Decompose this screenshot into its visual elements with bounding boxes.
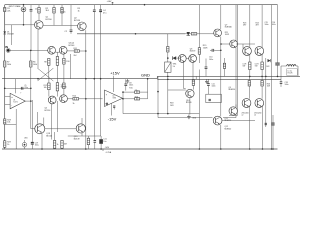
capacitor C21 elec <box>99 136 103 150</box>
label C19 <box>35 143 39 147</box>
svg-text:+56V: +56V <box>107 1 113 3</box>
wire: column x30.8 <box>31 79 36 129</box>
wire: U2 -15 stub <box>111 104 113 116</box>
svg-text:10u: 10u <box>103 141 106 143</box>
resistor R31 <box>61 140 63 148</box>
capacitor C18 <box>280 82 283 87</box>
wire: Q18 down <box>68 133 101 136</box>
transistor QB <box>230 40 238 48</box>
wire: Q6 down <box>56 101 58 132</box>
capacitor C11 <box>207 79 210 94</box>
svg-text:0.25A: 0.25A <box>106 151 112 154</box>
resistor R30 <box>53 132 58 148</box>
label Q13 <box>243 23 246 27</box>
diode D3 <box>187 32 191 36</box>
resistor R21b <box>191 33 197 35</box>
capacitor C1 <box>30 5 33 51</box>
svg-text:220p: 220p <box>24 87 28 89</box>
wire: mid GND bus left section <box>2 78 157 80</box>
capacitor C8 <box>124 79 127 90</box>
label VR1 <box>173 64 177 68</box>
wire: R20 down <box>192 85 194 89</box>
label QB <box>229 87 236 91</box>
capacitor C12 <box>209 99 211 100</box>
wire: R12 to Q5 <box>49 90 58 97</box>
label R2 value <box>9 5 50 12</box>
resistor R13 <box>56 83 58 91</box>
svg-text:1k: 1k <box>57 144 59 146</box>
wire: Q17 top <box>43 118 45 126</box>
capacitor C17 <box>275 5 279 78</box>
label L1 <box>287 69 297 76</box>
wire: R19 down <box>199 54 201 150</box>
svg-text:BC556: BC556 <box>46 19 53 21</box>
wire: between drivers <box>186 58 189 60</box>
resistor REb1 <box>248 76 250 98</box>
diode D4 output <box>266 59 270 68</box>
wire: Q14 emitter <box>261 55 263 63</box>
wire: U2 output <box>122 92 125 114</box>
svg-text:R14: R14 <box>73 96 76 98</box>
svg-text:5k: 5k <box>173 66 175 68</box>
label caps <box>265 22 276 26</box>
capacitor C3 <box>93 5 96 136</box>
resistor R11 base <box>74 48 80 57</box>
wire: driver bases <box>178 57 180 59</box>
label C11 <box>212 83 216 87</box>
ground symbol right mid <box>205 79 209 83</box>
wire: column x281 zobel <box>280 76 282 81</box>
capacitor C4 electrolytic <box>99 5 102 136</box>
input terminal IN <box>5 45 10 52</box>
resistor R14 horizontal <box>73 96 79 105</box>
wire: QB emitter down <box>223 48 236 118</box>
svg-text:R8: R8 <box>44 62 46 64</box>
svg-text:IN: IN <box>5 45 8 49</box>
resistor R19 <box>198 45 208 54</box>
label R25 <box>267 84 271 88</box>
wire: column x167.8 lower <box>167 72 169 113</box>
label Q2 <box>74 18 81 22</box>
diode D2 <box>172 56 180 60</box>
transistor Q17 <box>35 124 45 134</box>
svg-text:x2: x2 <box>242 115 244 117</box>
wire: QB base <box>220 43 230 45</box>
wire: R11 to node <box>79 50 86 52</box>
svg-text:10R: 10R <box>266 66 270 68</box>
label Q4 <box>69 43 75 47</box>
label GND <box>141 73 150 78</box>
label C5 <box>24 85 28 89</box>
svg-text:BC556: BC556 <box>45 110 51 112</box>
wire: QA emitter <box>220 37 222 117</box>
wire: column x271.5 <box>271 5 273 150</box>
transistor Q3 <box>48 46 56 54</box>
transistor QD1 driver <box>178 55 186 63</box>
wire: column x237.4 <box>229 5 237 116</box>
transistor Q1 <box>35 21 44 30</box>
label QD2 <box>190 49 196 53</box>
capacitor C20 <box>94 136 97 149</box>
svg-text:GND: GND <box>141 73 150 78</box>
wire: Q15 emitter down <box>249 107 251 150</box>
transistor QC <box>229 107 237 115</box>
transistor Q18 <box>76 124 85 133</box>
wire: Q2 leg down <box>85 30 87 50</box>
svg-text:100u: 100u <box>272 24 276 26</box>
transistor QD2 driver <box>189 55 197 63</box>
resistor RE2 <box>261 62 263 77</box>
label LD1 <box>24 138 28 140</box>
wire: LED wires <box>24 140 26 149</box>
label C18 <box>285 82 289 86</box>
wire: R2 to Q1 <box>38 13 40 20</box>
resistor R3 <box>53 5 55 26</box>
wire: upper bases line <box>236 44 255 49</box>
power flag -56V <box>103 147 112 154</box>
svg-text:4R7: 4R7 <box>243 25 246 27</box>
transistor Q16 <box>255 99 264 108</box>
svg-text:BC556: BC556 <box>74 20 81 22</box>
capacitor C10 <box>210 49 222 52</box>
wire: diff emitters <box>55 52 59 62</box>
svg-text:10k: 10k <box>7 122 10 124</box>
label Q18 <box>74 136 80 140</box>
svg-text:R15: R15 <box>129 88 132 90</box>
wire: QV base <box>168 89 186 91</box>
svg-text:100n: 100n <box>285 84 289 86</box>
svg-text:5W: 5W <box>243 66 246 68</box>
svg-text:100R: 100R <box>203 47 208 49</box>
power flag +56V <box>107 1 114 4</box>
svg-text:BC546: BC546 <box>61 87 67 89</box>
svg-text:5W: 5W <box>255 66 258 68</box>
wire: Q14 collector <box>261 5 263 48</box>
svg-text:LED: LED <box>24 138 28 140</box>
wire: Q17 stub <box>36 112 38 124</box>
wire: column x167.8 upper <box>167 34 169 47</box>
svg-text:INPUT STAGE: INPUT STAGE <box>9 5 22 8</box>
wire: R15 wires <box>122 91 147 93</box>
wire: U1 output <box>25 100 31 102</box>
wire: left sub loop <box>5 25 12 45</box>
resistor R6 <box>30 50 32 78</box>
current source CS1 <box>21 4 26 12</box>
label R10 <box>66 61 69 63</box>
resistor R12 <box>44 83 51 90</box>
resistor R20 <box>192 80 194 85</box>
resistor R15 fb <box>129 88 139 94</box>
wire: left vertical rail <box>4 5 6 149</box>
svg-text:100n: 100n <box>265 24 269 26</box>
transistor QV vas <box>186 89 194 97</box>
diode D1 on left rail <box>3 29 6 37</box>
capacitor C19 elec <box>31 100 34 149</box>
resistor R13b <box>63 83 65 95</box>
svg-text:100n: 100n <box>129 85 133 87</box>
label R18 <box>170 103 174 107</box>
wire: Q17 down <box>41 134 43 150</box>
transistor Q4 <box>59 46 67 54</box>
wire: Q1 to Q2 <box>43 25 78 27</box>
capacitor C7 <box>113 106 115 110</box>
svg-text:100u: 100u <box>35 145 39 147</box>
svg-text:BC546: BC546 <box>69 45 75 47</box>
op-amp U2 <box>105 90 123 107</box>
label R31 <box>64 144 68 146</box>
wire: drivers emitters <box>184 62 194 88</box>
wire: QB collector up <box>235 5 237 41</box>
wire: QC legs <box>235 105 237 108</box>
wire: CS1 top <box>23 5 25 7</box>
ground symbol lower left <box>187 115 197 120</box>
wire: U1 inputs <box>5 97 10 105</box>
wire: Q16 emitter down <box>262 107 264 150</box>
svg-text:1N4148: 1N4148 <box>7 34 14 36</box>
wire: R1 lower <box>4 12 6 25</box>
wire: Q13 collector <box>249 5 251 48</box>
svg-text:10R: 10R <box>267 86 271 88</box>
svg-text:C1: C1 <box>35 9 37 11</box>
resistor R1 on left rail <box>4 8 11 13</box>
svg-text:U2: U2 <box>113 95 115 97</box>
LED LD1 <box>22 142 27 147</box>
label D1 <box>7 31 14 35</box>
wire: column x147.6 <box>147 78 149 99</box>
wire: top +56V rail <box>5 4 278 6</box>
wire: cross couple A <box>38 68 54 81</box>
svg-text:4R7: 4R7 <box>256 25 259 27</box>
wire: R17 to node <box>167 52 169 62</box>
svg-text:x2: x2 <box>254 115 256 117</box>
svg-text:1k: 1k <box>78 10 80 12</box>
capacitor C13 <box>265 123 267 125</box>
wire: column x265.8 <box>265 58 267 127</box>
wire: column x199.4 <box>198 5 200 48</box>
svg-text:MJE340: MJE340 <box>225 128 232 130</box>
svg-text:-56V: -56V <box>105 147 110 149</box>
label C21 <box>103 139 106 143</box>
op-amp U1 <box>10 93 25 109</box>
label QV <box>186 100 192 104</box>
wire: base feed y24.8 <box>12 24 35 26</box>
svg-text:C5: C5 <box>24 85 26 87</box>
transistor Q13 <box>243 47 252 56</box>
wire: Q1 emitter down <box>37 29 39 68</box>
resistor R2 <box>38 5 40 13</box>
label Q15 <box>242 113 249 117</box>
svg-text:MJE340: MJE340 <box>225 27 232 29</box>
label C10 <box>209 57 213 61</box>
svg-text:R 10R: R 10R <box>288 72 294 74</box>
resistor R9 <box>56 57 58 79</box>
wire: output line y113.6 <box>123 113 199 115</box>
resistor R21 <box>223 58 225 76</box>
wire: R11 left <box>67 50 74 52</box>
capacitor C2 <box>70 30 73 34</box>
wire: U1 feedback line <box>4 88 32 90</box>
inductor L1 <box>281 65 298 77</box>
svg-text:BD139: BD139 <box>190 51 196 53</box>
svg-text:-: - <box>11 103 12 107</box>
label C4 <box>103 10 106 14</box>
svg-text:3k3: 3k3 <box>46 10 50 12</box>
svg-text:100n: 100n <box>61 11 65 13</box>
label +15V <box>110 71 120 76</box>
wire: U2 +15 stub <box>112 76 114 92</box>
svg-text:BD139: BD139 <box>186 102 192 104</box>
resistor RE1 <box>249 62 251 77</box>
wire: Q18 base link <box>45 128 76 130</box>
transistor Q5 <box>48 96 56 104</box>
svg-text:1k: 1k <box>73 103 75 105</box>
svg-text:MJE350: MJE350 <box>229 89 236 91</box>
wire: R14 to U2 <box>79 98 103 100</box>
wire: R12 top <box>49 79 64 83</box>
transistor QD lower predriver <box>213 116 222 125</box>
transistor Q2 <box>78 22 87 31</box>
svg-text:2k2: 2k2 <box>74 55 77 57</box>
capacitor C9 elec <box>205 59 208 77</box>
resistor R28 left rail <box>4 119 11 124</box>
label C2 <box>65 31 68 33</box>
resistor REb2 <box>261 76 263 98</box>
svg-text:R10: R10 <box>66 61 69 63</box>
capacitor C6 <box>105 103 108 105</box>
ground symbol mid <box>126 79 130 83</box>
svg-text:1k: 1k <box>7 144 9 146</box>
svg-text:100n: 100n <box>212 86 216 88</box>
svg-text:U1: U1 <box>13 100 15 102</box>
label Q14 <box>256 23 259 27</box>
label -15V <box>108 116 117 121</box>
wire: line y117.6 to lower predriver <box>158 117 213 119</box>
label OUT <box>0 0 1 1</box>
wire: bias line <box>77 33 185 35</box>
wire: QD emitter down <box>220 125 222 150</box>
svg-text:100k: 100k <box>7 64 11 66</box>
resistor R33 <box>87 136 89 149</box>
label RE1 <box>243 64 247 68</box>
transistor Q14 <box>255 47 264 56</box>
label QD <box>225 118 232 122</box>
wire: Q18 top <box>81 118 83 124</box>
resistor R29 <box>4 141 11 148</box>
resistor R16 fb <box>135 97 140 100</box>
svg-text:R11: R11 <box>74 48 77 50</box>
label Q6 <box>61 84 67 88</box>
capacitor C14 elec <box>271 115 274 150</box>
svg-text:7: 7 <box>20 93 21 95</box>
node: bias line junction <box>135 33 137 35</box>
label Q16 <box>254 113 261 117</box>
trimpot VR1 <box>165 62 171 72</box>
svg-text:100k: 100k <box>33 64 37 66</box>
wire: L route <box>5 109 17 149</box>
wire: main column x85.8 <box>85 51 87 150</box>
svg-text:100R: 100R <box>225 34 230 36</box>
label R8 <box>44 62 46 64</box>
label Q5 <box>45 108 51 112</box>
svg-text:TL071: TL071 <box>13 102 18 104</box>
svg-text:R16: R16 <box>135 97 138 99</box>
zobel box <box>206 94 222 102</box>
wire: Q13 emitter <box>249 55 251 63</box>
resistor R8 tail <box>48 59 50 79</box>
wire: bottom -56V rail <box>2 148 278 150</box>
wire: Q5 down <box>51 104 53 140</box>
capacitor C5 feedback <box>21 87 23 90</box>
label R5 <box>78 8 81 12</box>
wire: QV emitter stub <box>189 98 191 115</box>
wire: CS1 to base node <box>23 12 25 25</box>
label QA <box>225 24 232 36</box>
svg-text:22k: 22k <box>135 90 138 92</box>
wire: U1 supply stub up <box>15 79 17 94</box>
wire: column x158 <box>157 76 159 117</box>
wire: R16 wires <box>122 98 147 100</box>
svg-text:GND: GND <box>192 118 197 120</box>
label C8 <box>129 82 133 86</box>
transistor Q6 <box>60 95 68 103</box>
label QD row2 <box>225 126 232 130</box>
svg-text:10k: 10k <box>44 87 47 89</box>
svg-text:10R: 10R <box>64 144 68 146</box>
label C3 <box>61 9 65 13</box>
label Q1 <box>46 17 53 21</box>
transistor Q15 <box>242 99 251 108</box>
svg-text:BD140: BD140 <box>46 135 52 137</box>
resistor R10 <box>63 54 65 78</box>
wire: column x70.7 <box>70 54 72 79</box>
node: top rail junction <box>144 4 146 6</box>
wire: Q6 to R14 <box>67 98 73 100</box>
svg-text:+15V: +15V <box>110 71 120 76</box>
svg-text:100n: 100n <box>209 59 213 61</box>
wire: lower bases line <box>222 120 255 122</box>
wire: cross couple B <box>37 68 53 81</box>
wire: lower mid bus <box>157 78 281 80</box>
svg-text:22k: 22k <box>7 10 10 12</box>
resistor R7 on left rail <box>4 61 12 67</box>
wire: column x71 <box>70 5 72 30</box>
resistor R17 <box>167 47 169 53</box>
svg-text:-15V: -15V <box>108 116 117 121</box>
label Q17 <box>46 133 52 137</box>
wire: output bus <box>157 76 300 78</box>
svg-text:10R: 10R <box>170 105 174 107</box>
wire: driver emitter stub <box>195 76 197 79</box>
transistor QA predriver <box>214 29 222 37</box>
label RE2 <box>255 64 259 68</box>
wire: bias to QA base <box>185 33 214 35</box>
label R6 <box>33 62 37 66</box>
svg-text:C2: C2 <box>65 31 68 33</box>
resistor R4 <box>61 5 63 26</box>
wire: input line <box>10 50 48 52</box>
wire: QA collector <box>220 5 222 30</box>
svg-text:BD139: BD139 <box>74 138 80 140</box>
svg-text:47u: 47u <box>103 12 106 14</box>
